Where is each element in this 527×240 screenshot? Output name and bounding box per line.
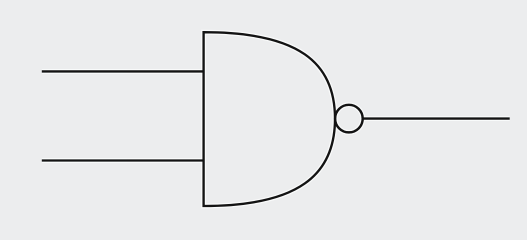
inversion bubble halo: [335, 105, 363, 133]
white halo under-strokes (upscale ringing): [42, 32, 510, 206]
nand-gate body halo: [204, 32, 335, 206]
wire output Y: [363, 117, 510, 119]
wire input B (bottom): [42, 159, 205, 161]
nand-gate U1 body: [204, 32, 335, 206]
wire input A halo: [42, 69, 205, 74]
wire input A (top): [42, 70, 205, 72]
wire output Y halo: [363, 116, 510, 121]
wire input B halo: [42, 158, 205, 163]
inversion bubble: [335, 105, 363, 133]
